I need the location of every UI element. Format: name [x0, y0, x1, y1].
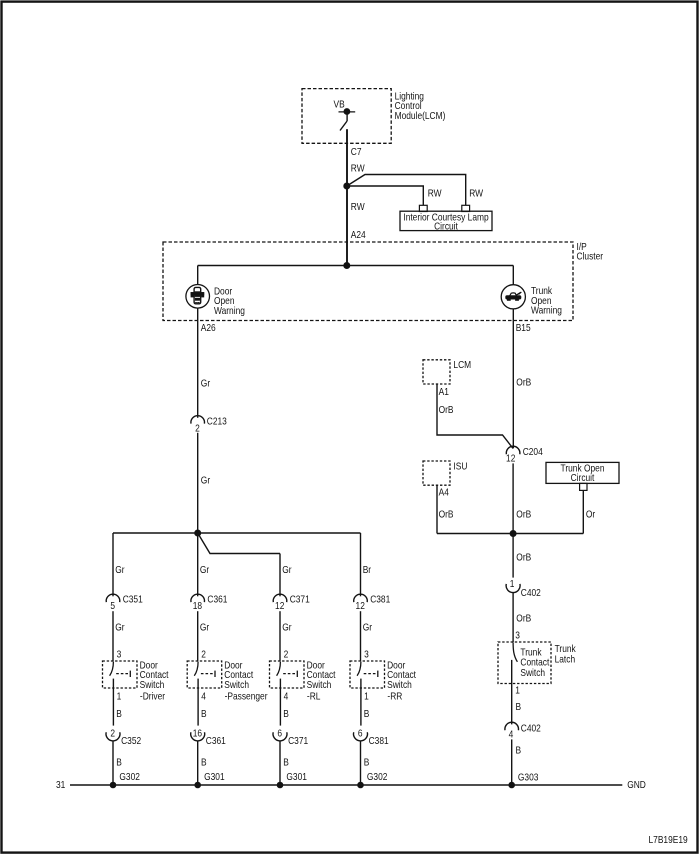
- junction node G303: [509, 782, 515, 788]
- svg-text:B: B: [283, 757, 289, 768]
- svg-text:6: 6: [358, 728, 363, 739]
- svg-text:-RL: -RL: [307, 691, 321, 702]
- svg-text:C402: C402: [521, 587, 541, 598]
- svg-text:G301: G301: [286, 772, 307, 783]
- connector C361 male half (Passenger): [191, 594, 205, 602]
- svg-text:Gr: Gr: [115, 622, 124, 633]
- svg-text:-Driver: -Driver: [140, 691, 165, 702]
- svg-text:L7B19E19: L7B19E19: [649, 834, 688, 845]
- svg-text:18: 18: [193, 600, 202, 611]
- svg-text:B: B: [201, 757, 207, 768]
- svg-text:Gr: Gr: [363, 622, 372, 633]
- svg-text:1: 1: [117, 691, 122, 702]
- connector C352 female half (Driver): [106, 732, 120, 741]
- switch blade Driver: [110, 662, 114, 676]
- svg-text:Trunk: Trunk: [555, 644, 576, 655]
- wire B trunk to ground: [511, 739, 513, 785]
- svg-text:12: 12: [506, 453, 515, 464]
- wire stub to trunk warning lamp: [512, 266, 514, 286]
- svg-text:2: 2: [201, 649, 206, 660]
- trunk open circuit box: [546, 462, 619, 483]
- connector C204 male half: [506, 446, 520, 454]
- switch blade RL: [277, 662, 281, 676]
- svg-text:31: 31: [56, 779, 65, 790]
- svg-text:Warning: Warning: [214, 305, 245, 316]
- svg-text:RW: RW: [469, 188, 483, 199]
- svg-text:C381: C381: [370, 594, 390, 605]
- trunk contact switch box: [498, 642, 551, 684]
- junction node G302 (RR): [358, 782, 364, 788]
- indicator U1 door open warning circle: [186, 285, 210, 309]
- door contact switch Driver text: [140, 660, 169, 702]
- switch blade RR: [357, 662, 361, 676]
- svg-text:GND: GND: [627, 779, 646, 790]
- wire B RL to ground: [279, 741, 281, 785]
- connector C381 male half (RR): [354, 594, 368, 602]
- wire Gr Driver to switch: [112, 611, 114, 661]
- svg-text:2: 2: [110, 728, 115, 739]
- wire OrB from LCM A1: [437, 384, 513, 448]
- wire Driver switch to connector: [112, 679, 114, 726]
- svg-text:C371: C371: [290, 594, 310, 605]
- svg-text:B: B: [364, 757, 370, 768]
- svg-text:12: 12: [275, 600, 284, 611]
- svg-text:C361: C361: [206, 736, 226, 747]
- svg-text:C402: C402: [521, 723, 541, 734]
- wire Gr to splice: [197, 433, 199, 533]
- svg-text:OrB: OrB: [516, 613, 531, 624]
- door open icon: [191, 287, 204, 303]
- svg-text:Switch: Switch: [307, 679, 332, 690]
- svg-text:Gr: Gr: [282, 622, 291, 633]
- svg-text:A4: A4: [439, 487, 449, 498]
- svg-text:Gr: Gr: [201, 378, 210, 389]
- svg-text:B: B: [116, 757, 122, 768]
- LCM label text: [395, 91, 446, 121]
- interior courtesy lamp circuit box: [400, 211, 492, 230]
- svg-text:VB: VB: [334, 99, 345, 110]
- connector C402 male half (pin 4): [505, 722, 519, 730]
- svg-text:C361: C361: [207, 594, 227, 605]
- svg-text:C204: C204: [523, 446, 543, 457]
- svg-text:Or: Or: [586, 509, 595, 520]
- svg-text:OrB: OrB: [439, 509, 454, 520]
- switch S1 in LCM (VB feed): [339, 109, 356, 131]
- svg-text:4: 4: [284, 691, 289, 702]
- wire B RR to ground: [360, 741, 362, 785]
- svg-text:3: 3: [117, 649, 122, 660]
- svg-text:-RR: -RR: [387, 691, 402, 702]
- junction node RW splice: [344, 183, 350, 189]
- wire Passenger switch to connector: [197, 679, 199, 726]
- svg-text:Br: Br: [363, 564, 371, 575]
- junction node G302 (Driver): [110, 782, 116, 788]
- svg-text:OrB: OrB: [516, 509, 531, 520]
- junction node G301 (RL): [277, 782, 283, 788]
- wire Or from trunk open circuit: [582, 490, 584, 533]
- trunk open icon: [506, 292, 522, 300]
- wire OrB C204 to splice: [512, 463, 514, 533]
- junction node trunk splice: [510, 531, 516, 537]
- connector C213 male half: [191, 416, 205, 424]
- I/P cluster dashed box: [163, 242, 573, 321]
- wire Gr branch Passenger: [197, 533, 199, 596]
- svg-text:Gr: Gr: [115, 564, 124, 575]
- svg-text:4: 4: [201, 691, 206, 702]
- svg-text:3: 3: [364, 649, 369, 660]
- switch blade Passenger: [194, 662, 198, 676]
- terminal pin right: [462, 205, 470, 211]
- svg-text:B: B: [201, 709, 207, 720]
- svg-text:-Passenger: -Passenger: [225, 691, 268, 702]
- door contact switch RL box: [270, 661, 305, 688]
- svg-text:6: 6: [277, 728, 282, 739]
- wire stub to door warning lamp: [197, 266, 199, 286]
- svg-text:G303: G303: [518, 772, 539, 783]
- svg-text:RW: RW: [351, 163, 365, 174]
- svg-text:Switch: Switch: [520, 667, 545, 678]
- indicator U2 trunk open warning circle: [501, 285, 525, 309]
- wire OrB splice to C402: [512, 534, 514, 578]
- door contact switch Driver box: [103, 661, 138, 688]
- svg-text:12: 12: [356, 600, 365, 611]
- cluster feed bus wire: [198, 265, 514, 267]
- wire A26 from door warning lamp: [197, 308, 199, 418]
- trunk contact switch text: [520, 647, 549, 678]
- svg-text:1: 1: [364, 691, 369, 702]
- module ISU box: [423, 461, 450, 485]
- wire Br branch RR: [360, 533, 362, 596]
- svg-text:G301: G301: [204, 772, 225, 783]
- svg-text:Cluster: Cluster: [577, 251, 604, 262]
- svg-text:G302: G302: [367, 772, 388, 783]
- svg-text:4: 4: [509, 729, 514, 740]
- svg-text:RW: RW: [428, 188, 442, 199]
- wire RL switch to connector: [279, 679, 281, 726]
- svg-text:Module(LCM): Module(LCM): [395, 110, 446, 121]
- wire OrB from ISU A4: [436, 485, 438, 533]
- junction node door switch splice: [195, 530, 201, 536]
- distribution bus wire doors: [113, 532, 361, 534]
- svg-text:Circuit: Circuit: [434, 221, 458, 232]
- connector C351 male half (Driver): [106, 594, 120, 602]
- svg-text:Gr: Gr: [282, 564, 291, 575]
- svg-text:A1: A1: [439, 387, 449, 398]
- svg-text:ISU: ISU: [453, 461, 467, 472]
- switch actuator dashed RL: [283, 671, 297, 677]
- trunk open circuit text: [561, 463, 605, 483]
- svg-text:Circuit: Circuit: [571, 473, 595, 484]
- connector C361 female half (Passenger): [191, 732, 205, 741]
- svg-text:Latch: Latch: [555, 654, 576, 665]
- junction node G301 (Passenger): [195, 782, 201, 788]
- svg-text:C7: C7: [351, 146, 362, 157]
- door contact switch RR text: [387, 660, 416, 702]
- trunk latch label: [555, 644, 576, 665]
- trunk switch blade: [513, 642, 517, 662]
- wire Gr RR to switch: [360, 611, 362, 661]
- wire to interior courtesy lamp lower: [347, 186, 424, 205]
- wire Gr RL to switch: [279, 611, 281, 661]
- svg-text:A26: A26: [201, 322, 216, 333]
- ground bus wire 31: [70, 784, 622, 786]
- connector C371 male half (RL): [273, 594, 287, 602]
- wire B Driver to ground: [112, 741, 114, 785]
- svg-text:Switch: Switch: [387, 679, 412, 690]
- door contact switch RR box: [350, 661, 385, 688]
- wire Gr branch Driver: [112, 533, 114, 596]
- interior courtesy lamp circuit text: [403, 212, 488, 232]
- wire B Passenger to ground: [197, 741, 199, 785]
- wire C7/RW from LCM to junction: [346, 129, 348, 186]
- svg-text:5: 5: [110, 600, 115, 611]
- svg-text:2: 2: [195, 423, 200, 434]
- wire Gr branch RL: [279, 554, 281, 597]
- switch actuator dashed RR: [364, 671, 378, 677]
- splice bus wire trunk: [437, 533, 583, 535]
- svg-text:B: B: [283, 709, 289, 720]
- svg-text:Warning: Warning: [531, 305, 562, 316]
- connector C402 female half (pin 1): [506, 584, 520, 593]
- wire A24 to cluster: [346, 186, 348, 266]
- terminal pin trunk open circuit: [580, 483, 587, 490]
- svg-text:Gr: Gr: [200, 564, 209, 575]
- wire to interior courtesy lamp upper: [347, 175, 466, 206]
- door contact switch Passenger box: [187, 661, 222, 688]
- I/P cluster label: [577, 241, 604, 262]
- svg-text:B: B: [364, 709, 370, 720]
- svg-text:Contact: Contact: [520, 657, 549, 668]
- svg-text:Trunk: Trunk: [520, 647, 541, 658]
- svg-text:OrB: OrB: [516, 377, 531, 388]
- branch wire to RL switch: [198, 533, 280, 554]
- svg-text:OrB: OrB: [516, 552, 531, 563]
- svg-text:C213: C213: [207, 416, 227, 427]
- svg-text:Gr: Gr: [201, 475, 210, 486]
- svg-text:RW: RW: [351, 201, 365, 212]
- svg-text:B15: B15: [516, 322, 531, 333]
- svg-text:Switch: Switch: [140, 679, 165, 690]
- wire OrB C402 to trunk switch: [512, 593, 514, 642]
- svg-text:Gr: Gr: [200, 622, 209, 633]
- svg-text:B: B: [116, 709, 122, 720]
- terminal pin left: [419, 205, 427, 211]
- svg-text:LCM: LCM: [453, 360, 471, 371]
- junction node A24 on bus: [344, 263, 350, 269]
- svg-text:C371: C371: [288, 736, 308, 747]
- svg-text:C381: C381: [369, 736, 389, 747]
- svg-text:1: 1: [515, 685, 520, 696]
- wire Gr Passenger to switch: [197, 611, 199, 661]
- svg-text:2: 2: [284, 649, 289, 660]
- module LCM small box: [423, 360, 450, 384]
- switch actuator dashed Passenger: [201, 671, 215, 677]
- svg-text:C352: C352: [121, 736, 141, 747]
- wire trunk switch to C402 pin 4: [511, 660, 513, 725]
- lighting control module LCM box: [302, 89, 391, 144]
- wire RR switch to connector: [360, 679, 362, 726]
- svg-text:16: 16: [193, 728, 202, 739]
- door contact switch Passenger text: [224, 660, 267, 702]
- door open warning text: [214, 286, 245, 316]
- svg-text:3: 3: [515, 630, 520, 641]
- door contact switch RL text: [307, 660, 336, 702]
- connector C381 female half (RR): [354, 732, 368, 741]
- svg-text:B: B: [516, 745, 522, 756]
- switch actuator dashed Driver: [116, 671, 130, 677]
- svg-text:Switch: Switch: [224, 679, 249, 690]
- svg-text:B: B: [516, 702, 522, 713]
- svg-text:G302: G302: [119, 772, 140, 783]
- svg-text:1: 1: [510, 579, 515, 590]
- svg-text:OrB: OrB: [439, 404, 454, 415]
- trunk open warning text: [531, 285, 562, 315]
- svg-text:A24: A24: [351, 229, 366, 240]
- connector C371 female half (RL): [273, 732, 287, 741]
- svg-text:C351: C351: [123, 594, 143, 605]
- wire B15 from trunk warning lamp: [512, 309, 514, 449]
